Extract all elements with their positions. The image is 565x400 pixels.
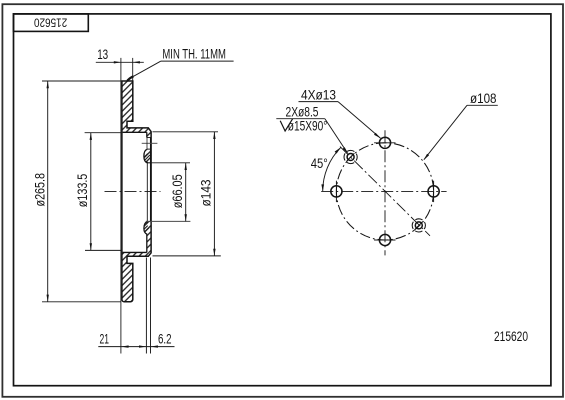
bore edge bottom bbox=[146, 221, 151, 223]
bolt hole left bbox=[331, 186, 342, 197]
dimension 21/6.2 line bbox=[98, 346, 174, 348]
hub wall hatch below bore continuous bbox=[144, 222, 151, 253]
svg-text:ø133.5: ø133.5 bbox=[75, 173, 90, 207]
45 degree arc bbox=[323, 147, 341, 191]
svg-text:ø15X90°: ø15X90° bbox=[288, 118, 328, 133]
horizontal centerline bbox=[321, 190, 446, 192]
diagonal centerline bbox=[340, 147, 430, 236]
bolt hole top bbox=[379, 137, 390, 148]
hat flange hatch top strip bbox=[122, 128, 151, 132]
hat flange hatch bottom strip bbox=[122, 252, 151, 256]
bolt circle D108 bbox=[336, 143, 433, 240]
hub wall left face upper bbox=[146, 132, 148, 137]
dimension 13 line bbox=[96, 61, 144, 63]
svg-text:ø143: ø143 bbox=[199, 179, 214, 206]
dimension 21 / 6.2 ext lines bbox=[145, 258, 147, 354]
rotor/hat outer silhouette bbox=[122, 81, 151, 302]
hub wall hatch above bore with fillet bbox=[144, 149, 151, 163]
leader 4XD13 bbox=[299, 101, 339, 103]
hub wall left face lower bbox=[146, 234, 148, 252]
dimension D133.5 line bbox=[90, 133, 92, 251]
svg-text:6.2: 6.2 bbox=[158, 331, 172, 346]
svg-text:21: 21 bbox=[100, 331, 110, 346]
dimension D66.05 ext lines bbox=[151, 162, 190, 164]
dimension D66.05 line bbox=[185, 163, 187, 222]
bulge hatch strokes lower bbox=[144, 226, 148, 230]
rotor hatch top block bbox=[122, 81, 133, 128]
bolt hole centerline upper bbox=[142, 142, 158, 144]
svg-text:ø265.8: ø265.8 bbox=[33, 173, 48, 207]
hub wall hatch upper segment bbox=[147, 132, 151, 137]
bulge hatch strokes upper bbox=[144, 154, 148, 158]
fillet bulge upper bbox=[144, 149, 147, 162]
dimension D265.8 ext lines bbox=[42, 80, 121, 82]
dimension D265.8 line bbox=[47, 81, 49, 302]
dimension D143 ext lines bbox=[153, 131, 219, 133]
svg-text:215620: 215620 bbox=[494, 329, 528, 344]
svg-text:45°: 45° bbox=[311, 156, 328, 171]
leader to countersunk hole bbox=[325, 119, 348, 153]
svg-text:215620: 215620 bbox=[34, 15, 67, 29]
leader D108 bbox=[467, 104, 498, 106]
svg-text:ø66.05: ø66.05 bbox=[170, 174, 185, 208]
dimension 13 ext lines bbox=[120, 58, 122, 354]
bolt hole left silhouette bbox=[146, 138, 148, 150]
title box top-left bbox=[14, 14, 89, 32]
bore edge top bbox=[147, 162, 151, 164]
svg-text:ø108: ø108 bbox=[470, 91, 497, 106]
dimension D133.5 ext lines bbox=[85, 132, 123, 134]
countersunk hole bottom-right bbox=[415, 222, 422, 229]
rotor hatch bottom block bbox=[122, 256, 133, 302]
svg-text:MIN TH. 11MM: MIN TH. 11MM bbox=[162, 47, 226, 62]
svg-text:2Xø8.5: 2Xø8.5 bbox=[286, 105, 319, 120]
hat inner surface top bbox=[123, 131, 147, 133]
dimension D143 line bbox=[213, 132, 215, 256]
vertical centerline bbox=[384, 130, 386, 255]
svg-text:13: 13 bbox=[97, 47, 108, 62]
label underline bbox=[276, 118, 325, 120]
bore silhouette right bbox=[149, 138, 151, 222]
svg-text:4Xø13: 4Xø13 bbox=[301, 87, 336, 102]
side view centerline bbox=[105, 190, 161, 192]
hat inner surface bottom bbox=[123, 251, 147, 253]
countersunk hole top-left bbox=[347, 154, 354, 161]
fillet bulge lower bbox=[144, 222, 147, 235]
bolt hole bottom bbox=[379, 234, 390, 245]
leader MIN TH. 11MM bbox=[161, 60, 234, 62]
bore silhouette left bbox=[146, 163, 148, 222]
bore chamfer bottom bbox=[147, 222, 148, 224]
bolt hole right bbox=[428, 186, 439, 197]
bore chamfer top bbox=[147, 161, 148, 163]
bolt hole edge lines upper bbox=[147, 137, 151, 139]
